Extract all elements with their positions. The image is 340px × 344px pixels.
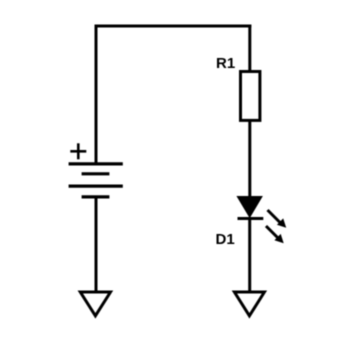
LED light arrow 2 shaft <box>266 226 278 238</box>
battery plate: short negative <box>82 172 110 175</box>
wire: resistor R1 to LED D1 anode <box>248 120 251 198</box>
LED D1 cathode bar <box>238 217 264 220</box>
wire: LED D1 cathode to ground <box>248 219 251 292</box>
LED light arrow 2 head <box>274 234 283 243</box>
LED light arrow 1 shaft <box>268 210 281 223</box>
svg-text:D1: D1 <box>216 231 235 248</box>
wire: top horizontal rail <box>95 25 252 28</box>
wire: left vertical from battery + plate up to top rail <box>95 25 98 166</box>
wire: right vertical from top rail down to resistor R1 <box>248 25 251 73</box>
resistor R1 body <box>241 72 260 121</box>
LED light arrow 1 head <box>277 218 286 227</box>
battery B1 plus sign <box>70 143 86 159</box>
wire: battery negative to ground <box>95 197 98 291</box>
svg-text:R1: R1 <box>216 55 235 72</box>
ground symbol (right, under D1) <box>234 292 264 316</box>
battery plate: long positive (inner) <box>69 185 123 188</box>
ground symbol (left, under battery) <box>80 292 110 316</box>
battery plate: long positive (top) <box>69 162 123 165</box>
LED D1 triangle (anode, filled) <box>237 197 262 218</box>
battery plate: short negative (bottom) <box>82 195 110 198</box>
